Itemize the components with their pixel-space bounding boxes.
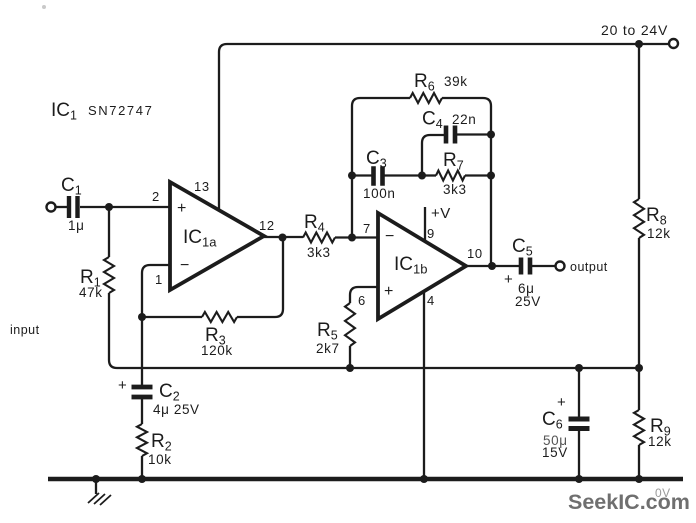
- C5 plus sign: [504, 271, 513, 288]
- svg-text:7: 7: [363, 221, 371, 236]
- svg-text:2k7: 2k7: [316, 341, 340, 356]
- wire C5 to output: [532, 265, 555, 267]
- label C5: [512, 236, 533, 259]
- resistor R9: [634, 410, 644, 445]
- svg-text:+: +: [384, 283, 393, 300]
- svg-text:25V: 25V: [515, 294, 541, 309]
- svg-text:4μ 25V: 4μ 25V: [153, 402, 200, 417]
- label IC1a: [183, 227, 217, 250]
- pin 12 label: [259, 218, 275, 233]
- IC1b plus input sign: [384, 283, 393, 300]
- label 1u: [68, 218, 85, 233]
- wire R4 to pin7: [335, 236, 377, 238]
- node C6 ground: [575, 475, 583, 483]
- svg-text:1μ: 1μ: [68, 218, 85, 233]
- node ground left: [92, 475, 100, 483]
- label R1: [80, 267, 101, 290]
- svg-text:39k: 39k: [444, 74, 468, 89]
- wire pin6 to R5: [350, 287, 378, 303]
- label IC1 SN72747: [51, 100, 153, 123]
- wire plus V stub: [424, 207, 426, 241]
- label R4: [304, 212, 325, 235]
- node IC1a out: [279, 234, 287, 242]
- capacitor C4: [446, 126, 455, 144]
- wire R1 to bias rail: [109, 293, 117, 368]
- label 6u: [518, 281, 535, 296]
- capacitor C3: [374, 166, 383, 186]
- svg-text:12k: 12k: [647, 226, 671, 241]
- svg-text:3k3: 3k3: [307, 245, 331, 260]
- label +V: [431, 205, 451, 222]
- pin 13 label: [194, 179, 210, 194]
- power rail 20-24V: [219, 44, 668, 52]
- node C4 right: [487, 131, 495, 139]
- label 3k3 R4: [307, 245, 331, 260]
- wire supply to R8: [638, 44, 640, 199]
- wire IC1a out: [264, 236, 303, 238]
- svg-text:+: +: [557, 394, 566, 411]
- label 100n: [363, 186, 395, 201]
- IC1a plus input sign: [177, 200, 186, 217]
- svg-text:6: 6: [358, 293, 366, 308]
- label 47k: [79, 285, 103, 300]
- wire R6 top left: [360, 97, 410, 99]
- label 2k7: [316, 341, 340, 356]
- scan speck: [42, 5, 46, 9]
- label IC1b: [394, 254, 427, 277]
- node R7 right: [487, 172, 495, 180]
- svg-text:−: −: [180, 257, 189, 274]
- op-amp U2 IC1b: [378, 213, 466, 319]
- ground rail: [48, 477, 683, 482]
- wire input to C1: [56, 206, 67, 208]
- svg-text:9: 9: [427, 226, 435, 241]
- svg-text:120k: 120k: [201, 343, 233, 358]
- svg-text:1: 1: [155, 272, 163, 287]
- label 12k R8: [647, 226, 671, 241]
- ground: [88, 481, 111, 505]
- label C1: [61, 175, 82, 198]
- capacitor C5: [521, 258, 530, 275]
- node R9 ground: [635, 475, 643, 483]
- wire R8 to divider: [638, 238, 640, 368]
- capacitor C6: [569, 419, 590, 429]
- svg-text:20 to 24V: 20 to 24V: [601, 22, 668, 38]
- resistor R6: [410, 93, 442, 103]
- wire R9 to ground: [638, 445, 640, 478]
- wire C4 branch: [422, 135, 444, 175]
- resistor R2: [137, 424, 147, 456]
- node R5 bias: [346, 364, 354, 372]
- svg-text:input: input: [10, 323, 40, 337]
- pin 6 label: [358, 293, 366, 308]
- svg-text:15V: 15V: [542, 445, 568, 460]
- wire C3 right stub: [384, 174, 422, 176]
- wire node7 up: [352, 98, 360, 237]
- label 15V: [542, 445, 568, 460]
- wire R6 right corner: [442, 98, 491, 266]
- wire R3 right up to out: [237, 238, 283, 317]
- pin 1 label: [155, 272, 163, 287]
- svg-text:13: 13: [194, 179, 210, 194]
- svg-text:12k: 12k: [648, 434, 672, 449]
- svg-text:+V: +V: [431, 205, 451, 222]
- IC1a minus input sign: [180, 257, 189, 274]
- node output: [488, 262, 496, 270]
- wire C4 right: [457, 133, 491, 135]
- wire C2 to R2: [141, 398, 143, 424]
- resistor R1: [104, 257, 114, 293]
- pin 10 label: [467, 246, 483, 261]
- pin 9 label: [427, 226, 435, 241]
- label 39k: [444, 74, 468, 89]
- node C6 top: [575, 364, 583, 372]
- node pin7: [348, 234, 356, 242]
- wire node down to C2: [141, 317, 143, 386]
- svg-text:2: 2: [152, 189, 160, 204]
- IC1b minus input sign: [385, 228, 394, 245]
- capacitor C2: [132, 387, 153, 397]
- label C3: [366, 148, 387, 171]
- svg-text:+: +: [504, 271, 513, 288]
- node C3 left: [348, 172, 356, 180]
- label R6: [414, 71, 435, 94]
- wire pin13 to rail: [218, 52, 220, 211]
- watermark SeekIC.com: [568, 490, 690, 514]
- wire divider to R9: [638, 368, 640, 410]
- svg-text:SN72747: SN72747: [88, 103, 153, 118]
- pin 2 label: [152, 189, 160, 204]
- label R8: [646, 205, 667, 228]
- C2 plus sign: [118, 377, 127, 394]
- svg-text:100n: 100n: [363, 186, 395, 201]
- label C6: [542, 409, 563, 432]
- wire IC1b out: [466, 265, 519, 267]
- label 12k R9: [648, 434, 672, 449]
- svg-text:47k: 47k: [79, 285, 103, 300]
- label 10k: [148, 452, 172, 467]
- svg-text:12: 12: [259, 218, 275, 233]
- C6 plus sign: [557, 394, 566, 411]
- wire C6 to ground: [578, 429, 580, 478]
- label R3: [205, 325, 226, 348]
- wire bias to C6: [578, 368, 580, 418]
- label 120k: [201, 343, 233, 358]
- input terminal: [47, 203, 56, 212]
- wire C3 left stub: [352, 174, 372, 176]
- wire R7 left stub: [422, 174, 436, 176]
- label 3k3 R7: [443, 182, 467, 197]
- svg-text:+: +: [118, 377, 127, 394]
- svg-text:output: output: [570, 260, 608, 274]
- label 20 to 24V: [601, 22, 668, 38]
- svg-text:SeekIC.com: SeekIC.com: [568, 490, 690, 514]
- output terminal: [556, 262, 565, 271]
- node C3 right: [418, 172, 426, 180]
- label 25V C5: [515, 294, 541, 309]
- wire pin1 to feedback: [142, 265, 170, 317]
- label R2: [151, 431, 172, 454]
- svg-text:10: 10: [467, 246, 483, 261]
- svg-text:3k3: 3k3: [443, 182, 467, 197]
- resistor R3: [202, 312, 237, 322]
- wire R2 to ground: [141, 456, 143, 478]
- wire R3 left: [142, 316, 202, 318]
- label R5: [317, 320, 338, 343]
- label 22n: [452, 112, 476, 127]
- label C2: [159, 381, 180, 404]
- node pin4 ground: [420, 475, 428, 483]
- label R7: [443, 150, 464, 173]
- resistor R4: [303, 233, 335, 243]
- label C4: [422, 109, 443, 132]
- node R2 ground: [138, 475, 146, 483]
- svg-text:+: +: [177, 200, 186, 217]
- node R3 left: [138, 313, 146, 321]
- resistor R7: [436, 171, 465, 181]
- resistor R5: [345, 303, 355, 346]
- resistor R8: [634, 199, 644, 238]
- bias rail wire: [117, 367, 639, 369]
- label 4u 25V: [153, 402, 200, 417]
- wire R7 right stub: [465, 174, 491, 176]
- wire C1 to pin2: [80, 206, 170, 208]
- svg-text:22n: 22n: [452, 112, 476, 127]
- wire node to R1: [108, 209, 110, 257]
- label R9: [650, 416, 671, 439]
- capacitor C1: [69, 196, 78, 218]
- wire pin4 to ground: [423, 291, 425, 478]
- wire R5 to bias rail: [349, 346, 351, 368]
- svg-text:−: −: [385, 228, 394, 245]
- node divider: [635, 364, 643, 372]
- pin 4 label: [427, 293, 435, 308]
- node input bias: [105, 203, 113, 211]
- pin 7 label: [363, 221, 371, 236]
- label 0V: [655, 486, 670, 500]
- label output: [570, 260, 608, 274]
- op-amp U1 IC1a: [170, 182, 264, 290]
- supply terminal: [669, 39, 678, 48]
- node supply junction: [635, 40, 643, 48]
- label 50u: [543, 433, 568, 448]
- svg-text:4: 4: [427, 293, 435, 308]
- svg-text:10k: 10k: [148, 452, 172, 467]
- label input: [10, 323, 40, 337]
